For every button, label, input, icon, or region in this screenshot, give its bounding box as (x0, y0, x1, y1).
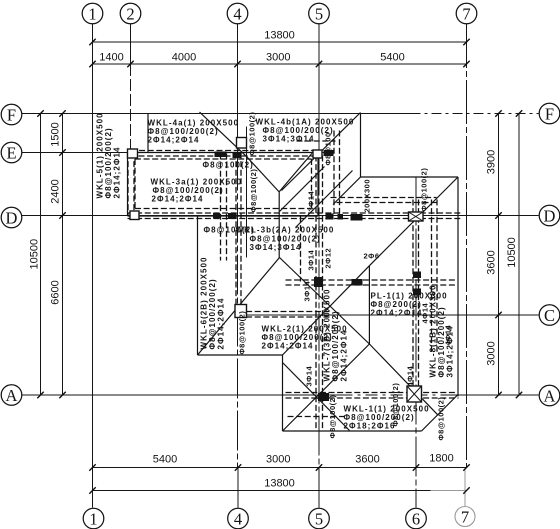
column grid4 x C (235, 305, 247, 318)
svg-text:WKL-3b(2A) 200X500: WKL-3b(2A) 200X500 (236, 226, 335, 235)
svg-text:3000: 3000 (266, 454, 290, 466)
grid bubble 7 bottom faint (455, 507, 475, 527)
roof upper-left block outline (128, 152, 319, 154)
svg-text:Φ8@100(2): Φ8@100(2) (248, 112, 257, 156)
svg-text:13800: 13800 (264, 478, 295, 490)
grid line E horizontal (22, 152, 331, 154)
right wing left eave edge (360, 113, 362, 177)
right wing NE corner hip to ridge (369, 177, 458, 266)
column grid4 above E (237, 138, 247, 149)
svg-text:3600: 3600 (486, 250, 498, 274)
grid line 1 vertical (92, 24, 94, 508)
svg-text:3000: 3000 (266, 52, 290, 64)
svg-text:2Φ14;2Φ14: 2Φ14;2Φ14 (371, 309, 423, 318)
long hip from F to central ridge apex (282, 113, 361, 191)
svg-text:2Φ14;2Φ14: 2Φ14;2Φ14 (113, 147, 122, 199)
diagonal valley to ridge (280, 167, 325, 212)
central block bottom eave edge (198, 354, 283, 356)
column blob E x220 (215, 152, 227, 158)
grid bubble 1 bottom (83, 508, 104, 529)
column grid5 x E (313, 150, 322, 158)
grid line 5 vertical upper (318, 24, 320, 156)
svg-text:5: 5 (315, 4, 323, 23)
valley at right wing top-left corner (333, 177, 361, 205)
right wing top eave edge (361, 176, 459, 178)
svg-text:Φ8@100(2): Φ8@100(2) (420, 168, 429, 212)
grid line C horizontal (238, 314, 539, 316)
svg-text:2Φ12: 2Φ12 (324, 248, 333, 269)
top dimension line segments 1400 4000 3000 5400 (93, 63, 467, 65)
svg-text:2Φ6: 2Φ6 (364, 252, 380, 261)
beam vertical x247 (246, 127, 248, 258)
beam stub below A row (288, 416, 346, 418)
column grid6 x D with cross (409, 212, 424, 221)
svg-text:2Φ14;2Φ14: 2Φ14;2Φ14 (262, 342, 314, 351)
grid bubble F right (539, 103, 560, 124)
beam row between D and C (286, 279, 458, 281)
svg-text:2Φ18;2Φ16: 2Φ18;2Φ16 (344, 422, 396, 431)
grid bubble D left (1, 207, 22, 228)
roof top-center left eave edge (147, 113, 149, 153)
svg-text:Φ8@100(2): Φ8@100(2) (328, 395, 337, 439)
beam along D row (128, 212, 461, 214)
grid line 7 stub bottom faint (464, 468, 466, 507)
grid line 6 vertical (415, 177, 417, 508)
hip V right arm (279, 153, 312, 192)
svg-text:4000: 4000 (172, 52, 196, 64)
svg-text:10500: 10500 (29, 239, 41, 270)
bottom wing secondary valley (283, 363, 350, 431)
beam vertical grid2 in block (127, 153, 129, 216)
column blob D x338 (338, 214, 344, 220)
grid line 7 vertical (466, 24, 468, 468)
svg-text:5: 5 (315, 509, 323, 528)
svg-text:Φ8@100(2): Φ8@100(2) (249, 169, 258, 213)
left dimension line segments 1500 2400 6600 (62, 114, 64, 396)
left dimension line total 10500 (40, 114, 42, 396)
bottom wing SW hip diagonal (283, 344, 370, 431)
column grid2 x E (128, 149, 138, 158)
svg-text:3900: 3900 (486, 150, 498, 174)
svg-text:3Φ14: 3Φ14 (305, 366, 314, 387)
beam along A row (286, 392, 459, 394)
grid bubble A right (539, 385, 560, 406)
bottom dimension line segments 5400 3000 3600 1800 (93, 467, 467, 469)
long valley diagonal (296, 171, 353, 228)
svg-text:Φ8@100(2): Φ8@100(2) (437, 397, 446, 441)
svg-text:1: 1 (89, 509, 97, 528)
svg-text:Φ8@100(2): Φ8@100(2) (391, 383, 400, 427)
svg-text:1400: 1400 (99, 52, 123, 64)
grid bubble 5 top (309, 3, 330, 24)
svg-text:1800: 1800 (429, 453, 453, 465)
top dimension line total 13800 (93, 41, 467, 43)
central block left eave edge (197, 216, 199, 355)
column blob grid6 row274 (413, 272, 421, 279)
column blob D x356 (351, 214, 363, 221)
beam vertical near grid4 (235, 153, 237, 305)
svg-text:Φ8@100/200(2): Φ8@100/200(2) (250, 234, 321, 243)
svg-text:4: 4 (233, 4, 241, 23)
central diagonal ridge to bottom wing (280, 258, 370, 345)
grid line 5 stub bottom (318, 468, 320, 508)
svg-text:F: F (7, 105, 16, 124)
svg-text:4Φ14: 4Φ14 (406, 366, 415, 387)
bottom wing left eave edge (282, 355, 284, 431)
svg-text:3Φ14;3Φ14: 3Φ14;3Φ14 (263, 135, 315, 144)
svg-text:5400: 5400 (380, 52, 404, 64)
central block SW hip (198, 258, 280, 356)
beam along E row (131, 150, 319, 152)
svg-text:2Φ14;2Φ14: 2Φ14;2Φ14 (148, 136, 200, 145)
short beam dash near grid5 upper (297, 140, 336, 142)
beam vertical x334 (333, 131, 335, 216)
svg-text:2Φ14;2Φ14: 2Φ14;2Φ14 (152, 195, 204, 204)
svg-text:2: 2 (126, 4, 134, 23)
column blob D grid4 (228, 213, 237, 219)
grid line A horizontal (22, 394, 341, 396)
grid line D horizontal (22, 215, 539, 217)
grid line 4 stub bottom (237, 468, 239, 508)
bottom dimension line total 13800 (93, 490, 431, 492)
valley central block to bottom wing (283, 266, 370, 355)
grid line 1 stub bottom (92, 468, 94, 508)
grid bubble 2 top (120, 3, 141, 24)
beam vertical x434 (431, 200, 433, 354)
svg-text:10500: 10500 (506, 237, 518, 268)
beam right wing top (331, 197, 437, 199)
svg-text:F: F (545, 104, 554, 123)
grid line 4 vertical upper (237, 24, 239, 151)
beam vertical grid6 (412, 200, 414, 398)
svg-text:Φ8@100: Φ8@100 (324, 132, 333, 165)
column blob grid5 x A (318, 393, 329, 401)
grid bubble 1 top (82, 3, 103, 24)
grid bubble C right (539, 305, 560, 326)
svg-text:Φ8@100(2): Φ8@100(2) (238, 311, 247, 355)
column blob D x329 (326, 214, 334, 220)
svg-text:200X300: 200X300 (363, 179, 372, 213)
column grid2 x D (130, 211, 139, 220)
grid bubble A left (1, 385, 22, 406)
svg-text:2Φ14;2Φ14: 2Φ14;2Φ14 (217, 298, 226, 350)
bottom wing ridge vertical (368, 266, 370, 344)
svg-text:7: 7 (462, 4, 470, 23)
svg-text:3Φ14;3Φ14: 3Φ14;3Φ14 (250, 243, 302, 252)
right dimension line total 10500 (518, 114, 520, 396)
grid line 4 vertical center (237, 151, 239, 468)
beam along C row (238, 311, 331, 313)
column blob grid5 row281 (314, 277, 323, 287)
svg-text:5400: 5400 (153, 454, 177, 466)
grid bubble E left (1, 142, 22, 163)
svg-text:6600: 6600 (50, 280, 62, 304)
bottom wing SE hip (422, 395, 459, 432)
svg-text:13800: 13800 (264, 30, 295, 42)
svg-text:7: 7 (461, 507, 469, 526)
svg-text:2Φ14;2Φ14: 2Φ14;2Φ14 (340, 330, 349, 382)
beam vertical x220 (220, 154, 222, 261)
grid bubble 4 bottom (228, 508, 249, 529)
svg-text:D: D (544, 206, 556, 225)
bottom wing bottom eave edge (283, 430, 422, 432)
column blob E grid4 (233, 152, 241, 158)
svg-text:3600: 3600 (355, 454, 379, 466)
svg-text:3Φ14: 3Φ14 (307, 250, 316, 271)
column grid6 x A with cross (407, 386, 422, 402)
column blob E x328 (324, 150, 334, 156)
grid line 2 vertical upper (130, 24, 132, 64)
svg-text:1500: 1500 (50, 122, 62, 146)
svg-text:2400: 2400 (50, 179, 62, 203)
grid line 2 vertical to roof (130, 64, 132, 151)
ridge vertical below V (278, 192, 280, 258)
right dimension line segments 3900 3600 3000 (498, 114, 500, 396)
column blob grid6 row291 (413, 289, 421, 296)
svg-text:A: A (544, 386, 556, 405)
column blob D x215 (213, 213, 220, 219)
svg-text:3Φ14: 3Φ14 (303, 281, 312, 302)
beam vertical grid5 (315, 156, 317, 431)
svg-text:3000: 3000 (486, 341, 498, 365)
svg-text:E: E (6, 143, 16, 162)
svg-text:A: A (6, 386, 18, 405)
svg-text:6: 6 (412, 509, 420, 528)
hip V left arm (246, 156, 279, 192)
svg-text:4: 4 (234, 509, 242, 528)
svg-text:C: C (544, 306, 555, 325)
hip from F line to E corner (200, 112, 247, 156)
right wing and bottom wing right eave edge (457, 177, 459, 397)
svg-text:3Φ14: 3Φ14 (307, 191, 316, 212)
svg-text:3Φ14;2Φ14: 3Φ14;2Φ14 (446, 326, 455, 378)
bottom wing ridge to SE hip (369, 344, 438, 415)
grid bubble 5 bottom (309, 508, 330, 529)
grid line F horizontal (22, 113, 411, 115)
column blob x352 row281 (352, 279, 363, 286)
svg-text:1: 1 (88, 4, 96, 23)
roof upper-left block inner beam rect (135, 158, 312, 160)
beam vertical x293 (300, 217, 302, 282)
svg-text:Φ8@100(2): Φ8@100(2) (203, 161, 254, 170)
grid line 5 vertical center (318, 156, 320, 468)
grid bubble 6 bottom (406, 508, 427, 529)
svg-text:D: D (6, 208, 18, 227)
grid bubble 4 top (227, 3, 248, 24)
grid bubble F left (1, 104, 22, 125)
grid bubble 7 top (456, 3, 477, 24)
grid bubble D right (539, 205, 560, 226)
